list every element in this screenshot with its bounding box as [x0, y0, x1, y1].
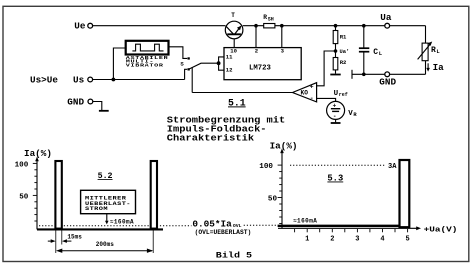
svg-text:R: R	[263, 14, 267, 21]
svg-text:5.1: 5.1	[228, 97, 246, 108]
svg-text:Ua’: Ua’	[340, 49, 350, 55]
svg-text:Us: Us	[73, 74, 85, 85]
svg-text:50: 50	[268, 196, 278, 204]
svg-text:+: +	[310, 83, 314, 90]
svg-text:5.3: 5.3	[327, 174, 343, 184]
svg-text:100: 100	[259, 163, 273, 171]
svg-text:SH: SH	[268, 17, 274, 23]
svg-text:Ia: Ia	[433, 62, 445, 73]
svg-text:(OVL=UEBERLAST): (OVL=UEBERLAST)	[195, 229, 252, 236]
svg-text:Charakteristik: Charakteristik	[167, 133, 255, 143]
svg-text:100: 100	[15, 161, 29, 169]
svg-text:-: -	[310, 95, 314, 102]
svg-text:Bild 5: Bild 5	[216, 250, 252, 260]
svg-text:0.05*Ia: 0.05*Ia	[192, 218, 232, 229]
svg-text:50: 50	[19, 193, 29, 201]
svg-text:VIBRATOR: VIBRATOR	[126, 63, 164, 68]
svg-text:5: 5	[406, 235, 410, 243]
svg-text:1: 1	[305, 235, 309, 243]
svg-text:3A: 3A	[388, 163, 397, 171]
svg-text:Ue: Ue	[74, 21, 86, 32]
svg-text:R: R	[431, 46, 436, 55]
svg-text:ref: ref	[339, 92, 348, 98]
svg-text:LM723: LM723	[249, 64, 272, 72]
svg-text:R1: R1	[340, 34, 347, 41]
svg-text:15ms: 15ms	[67, 233, 82, 240]
svg-text:12: 12	[226, 66, 233, 73]
svg-text:GND: GND	[67, 97, 84, 108]
svg-text:2: 2	[330, 235, 334, 243]
svg-text:3: 3	[355, 235, 359, 243]
svg-text:GND: GND	[379, 76, 396, 87]
svg-text:Us>Ue: Us>Ue	[30, 74, 58, 85]
svg-text:C: C	[373, 48, 378, 57]
svg-text:Ia(%): Ia(%)	[270, 141, 298, 152]
svg-text:+Ua(V): +Ua(V)	[424, 226, 458, 235]
svg-text:≈160mA: ≈160mA	[110, 218, 134, 225]
svg-text:STROM: STROM	[85, 206, 108, 212]
svg-text:-: -	[333, 113, 337, 120]
svg-text:200ms: 200ms	[96, 241, 114, 248]
svg-text:4: 4	[380, 235, 384, 243]
svg-text:Ia(%): Ia(%)	[24, 148, 52, 159]
svg-text:KO: KO	[301, 89, 309, 96]
svg-text:Ua: Ua	[380, 12, 392, 23]
svg-text:5.2: 5.2	[98, 172, 113, 181]
svg-text:11: 11	[226, 54, 233, 61]
svg-text:+: +	[333, 102, 337, 109]
svg-text:≈160mA: ≈160mA	[293, 218, 317, 225]
svg-text:R2: R2	[340, 59, 347, 66]
svg-text:T: T	[231, 12, 235, 19]
